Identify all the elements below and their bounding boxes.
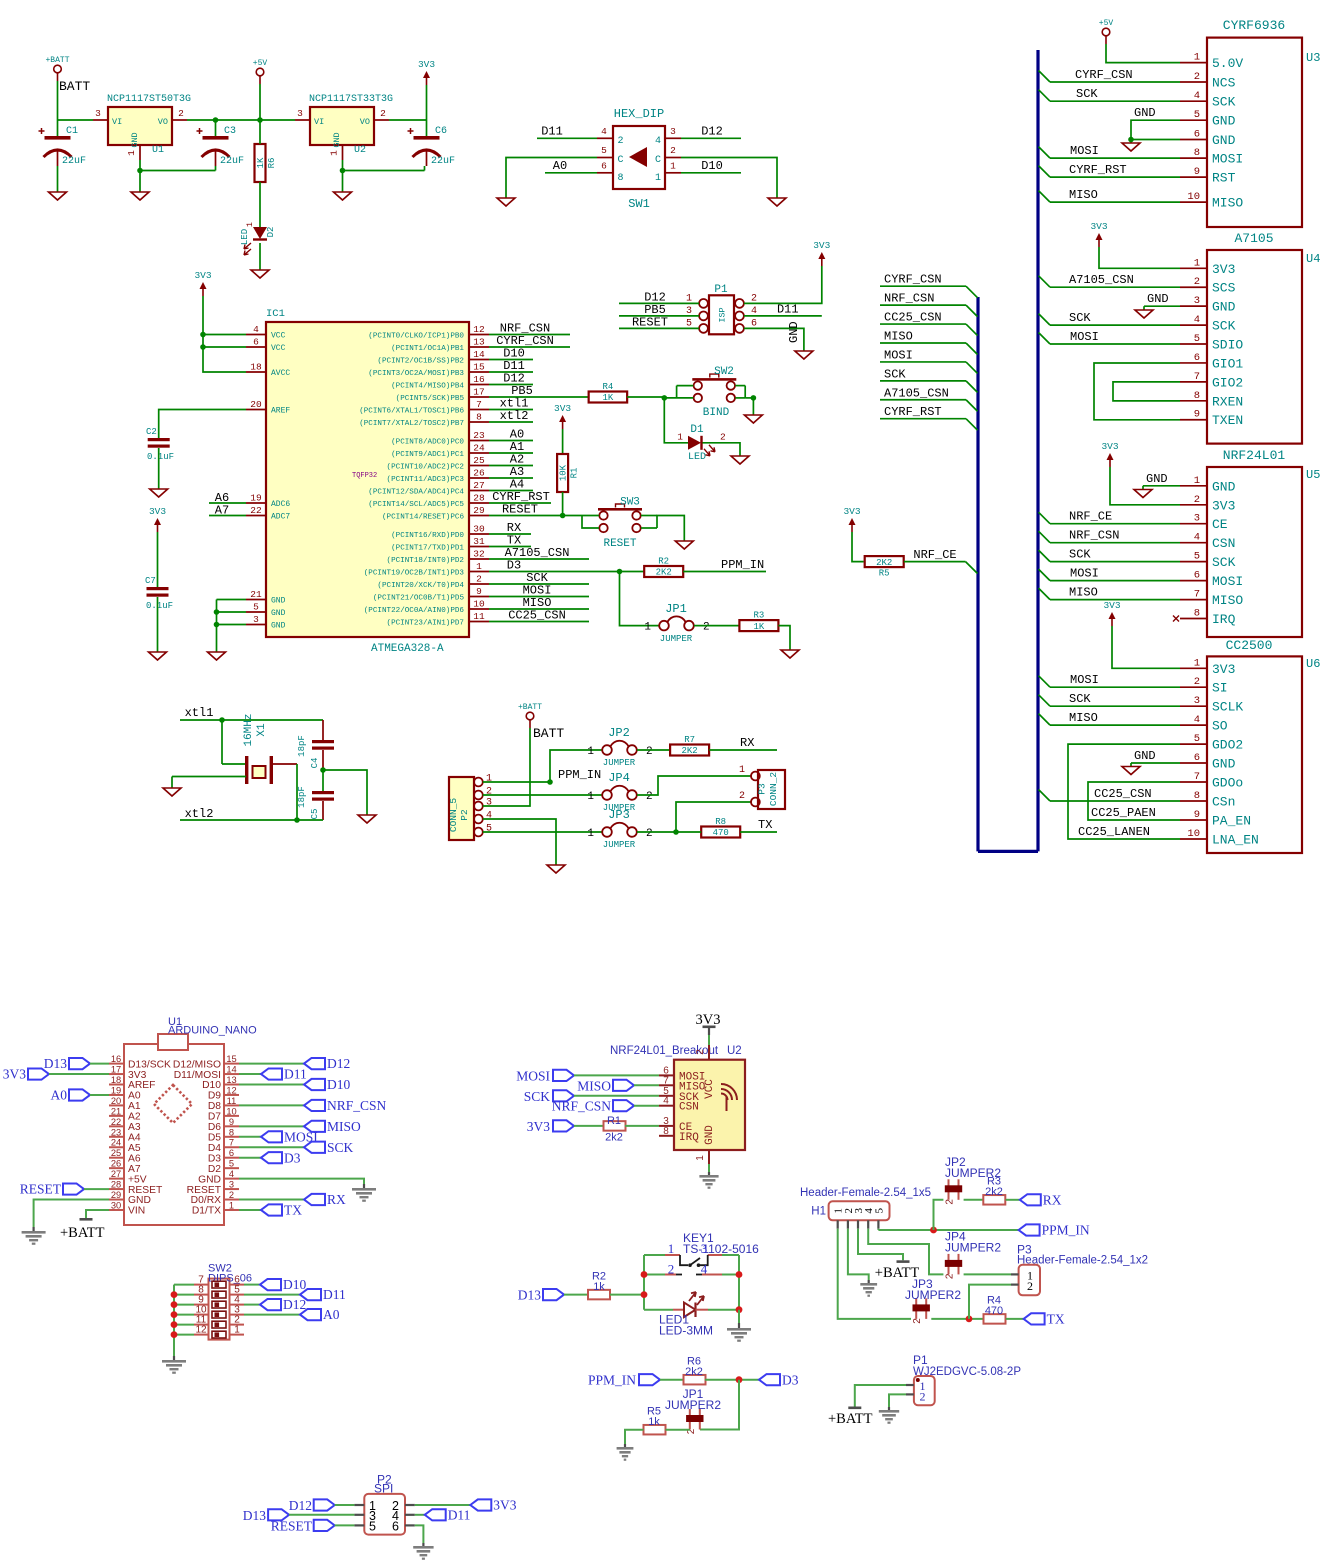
svg-text:2: 2 xyxy=(646,828,653,840)
wire C2 to ground xyxy=(158,448,160,489)
svg-text:(PCINT8/ADC0)PC0: (PCINT8/ADC0)PC0 xyxy=(391,438,464,446)
wire crystal right xyxy=(273,763,297,765)
svg-text:xtl2: xtl2 xyxy=(500,409,529,423)
wire C4 column xyxy=(322,720,324,740)
IC U4 A7105 xyxy=(1207,250,1302,444)
svg-text:3: 3 xyxy=(701,1241,708,1256)
junction H1 pin5 xyxy=(930,1227,937,1234)
ground under C2 xyxy=(150,489,168,497)
svg-text:D10: D10 xyxy=(283,1277,306,1292)
svg-text:A3: A3 xyxy=(128,1122,141,1133)
svg-text:8: 8 xyxy=(1194,390,1200,402)
wire AREF to C2 xyxy=(159,410,246,439)
svg-text:2: 2 xyxy=(945,1199,956,1205)
svg-text:CSn: CSn xyxy=(1212,795,1235,810)
svg-text:D7: D7 xyxy=(208,1112,221,1123)
svg-text:4: 4 xyxy=(1194,314,1200,326)
svg-text:D0/RX: D0/RX xyxy=(191,1195,221,1206)
svg-text:3V3: 3V3 xyxy=(1101,441,1118,452)
switch SW2 BIND xyxy=(694,381,702,389)
wire xtl1 xyxy=(180,719,323,721)
svg-text:U2: U2 xyxy=(354,145,366,156)
svg-text:GND: GND xyxy=(130,132,140,147)
wire +BATT to C1 xyxy=(57,81,59,136)
svg-text:RESET: RESET xyxy=(603,538,636,550)
svg-text:MISO: MISO xyxy=(327,1119,361,1134)
wire R1 to U2 CE xyxy=(625,1125,659,1127)
capacitor C2 0.1uF xyxy=(148,438,170,441)
wire A7 xyxy=(209,515,246,517)
switch KEY1 contacts xyxy=(665,1254,680,1256)
svg-text:8: 8 xyxy=(618,173,624,184)
wire P1 pin4 xyxy=(744,315,822,317)
svg-text:RXEN: RXEN xyxy=(1212,394,1243,409)
wire U6 GDOo to PA_EN xyxy=(1088,782,1180,820)
wire U1 GND to ground xyxy=(139,171,141,193)
wire R2 to PPM_IN xyxy=(683,571,766,573)
wire U6 GDO2 to LNA_EN xyxy=(1068,744,1180,839)
flag D10 at U1 xyxy=(304,1079,325,1090)
svg-text:25: 25 xyxy=(473,455,485,466)
flag 3V3 at P2 xyxy=(470,1499,491,1510)
svg-text:A0: A0 xyxy=(51,1088,68,1103)
svg-text:SW2: SW2 xyxy=(714,366,734,378)
svg-text:5: 5 xyxy=(1194,333,1200,345)
svg-text:SCK: SCK xyxy=(1069,311,1091,325)
wire D12 to P2 xyxy=(335,1504,355,1506)
svg-text:1: 1 xyxy=(329,150,340,156)
svg-text:ISP: ISP xyxy=(718,307,728,322)
svg-text:C3: C3 xyxy=(224,126,236,137)
wire KEY1 row2 xyxy=(644,1274,665,1276)
svg-text:VIN: VIN xyxy=(128,1206,145,1217)
svg-text:R1: R1 xyxy=(607,1115,621,1127)
wire U5 GND pin xyxy=(1143,485,1180,487)
svg-text:CC25_PAEN: CC25_PAEN xyxy=(1091,806,1156,820)
junctions SW2 xyxy=(171,1291,178,1298)
wire RESET to P1 xyxy=(619,327,699,329)
svg-text:D12: D12 xyxy=(701,125,723,139)
stem SW2 ground xyxy=(173,1356,175,1360)
svg-text:3V3: 3V3 xyxy=(1212,498,1235,513)
svg-text:3: 3 xyxy=(95,108,101,119)
wire 3V3 to R1 xyxy=(562,429,564,454)
svg-text:(PCINT23/AIN1)PD7: (PCINT23/AIN1)PD7 xyxy=(387,619,464,627)
wire H1 pin5 row xyxy=(877,1229,879,1230)
svg-text:JUMPER: JUMPER xyxy=(660,634,693,644)
svg-text:VCC: VCC xyxy=(271,344,286,353)
svg-text:P2: P2 xyxy=(459,809,470,821)
wire A0 to SW1 xyxy=(545,172,597,174)
svg-text:8: 8 xyxy=(663,1126,669,1137)
IC1 left pins xyxy=(246,334,266,336)
svg-text:+BATT: +BATT xyxy=(60,1225,105,1241)
svg-text:MOSI: MOSI xyxy=(1212,574,1243,589)
svg-text:(PCINT14/RESET)PC6: (PCINT14/RESET)PC6 xyxy=(382,513,464,521)
wire VCC pin4 xyxy=(203,334,246,336)
svg-text:5: 5 xyxy=(1194,109,1200,121)
wire SW2 to ground xyxy=(752,398,754,415)
wire P2 to D11 xyxy=(415,1514,425,1516)
svg-text:27: 27 xyxy=(473,480,484,491)
svg-text:9: 9 xyxy=(229,1117,234,1127)
svg-text:GND: GND xyxy=(271,597,286,606)
junction R4 node xyxy=(662,395,668,401)
svg-text:(PCINT16/RXD)PD0: (PCINT16/RXD)PD0 xyxy=(391,532,464,540)
svg-text:3V3: 3V3 xyxy=(843,506,860,517)
svg-text:D1/TX: D1/TX xyxy=(192,1206,221,1217)
svg-text:21: 21 xyxy=(250,589,262,600)
svg-text:2: 2 xyxy=(739,791,745,802)
svg-text:1: 1 xyxy=(587,791,594,803)
svg-text:VCC: VCC xyxy=(271,332,286,341)
svg-text:+5V: +5V xyxy=(128,1174,147,1185)
svg-text:1: 1 xyxy=(695,1155,706,1161)
wire R6 to D3 xyxy=(705,1379,759,1381)
wire U1 RX xyxy=(239,1199,304,1201)
ground left of crystal xyxy=(163,788,181,796)
flag D3 at U1 xyxy=(261,1152,282,1163)
junction GND3 xyxy=(214,622,220,628)
jumper JP3 xyxy=(602,827,612,837)
svg-text:A7: A7 xyxy=(128,1164,141,1175)
wire PPM_IN to R6 xyxy=(660,1379,684,1381)
wire D2 to ground xyxy=(259,243,261,270)
svg-text:2k2: 2k2 xyxy=(605,1132,623,1144)
svg-text:SW1: SW1 xyxy=(628,197,650,211)
svg-text:22: 22 xyxy=(250,505,262,516)
svg-text:PB5: PB5 xyxy=(511,384,533,398)
svg-text:6: 6 xyxy=(1194,352,1200,364)
svg-text:GND: GND xyxy=(198,1174,221,1185)
junction KEY1 right row2 xyxy=(736,1271,743,1278)
wire D13 to P2 xyxy=(289,1514,354,1516)
wire H1 pin2 to ground xyxy=(848,1229,869,1280)
ground at U3 xyxy=(1122,143,1140,151)
supply +BATT at H1 xyxy=(897,1260,910,1263)
supply +BATT at U1 xyxy=(80,1218,93,1221)
wire junction to R8 xyxy=(676,831,701,833)
wire D3 node to JP1 xyxy=(700,1380,739,1430)
svg-text:CC25_CSN: CC25_CSN xyxy=(508,609,566,623)
svg-text:WJ2EDGVC-5.08-2P: WJ2EDGVC-5.08-2P xyxy=(913,1366,1021,1378)
flag SCK at U1 xyxy=(304,1142,325,1153)
svg-text:CC25_CSN: CC25_CSN xyxy=(1094,787,1152,801)
svg-text:D11: D11 xyxy=(541,125,563,139)
svg-text:ARDUINO_NANO: ARDUINO_NANO xyxy=(168,1025,257,1037)
wire pin1 up to JP2 xyxy=(550,750,602,782)
svg-text:2: 2 xyxy=(1194,71,1200,83)
svg-text:GND: GND xyxy=(1212,479,1236,494)
wire U2 GND to C6 xyxy=(343,170,425,172)
wire PB5 to R4 xyxy=(489,396,589,398)
svg-text:LED: LED xyxy=(688,452,706,463)
wire U4 GIO1 to TXEN xyxy=(1094,363,1180,420)
wire H1 pin1 to JP3 xyxy=(838,1229,911,1319)
flag NRF_CSN at U1 xyxy=(304,1100,325,1111)
junction +5V node xyxy=(257,117,263,123)
wire xtl2 xyxy=(180,819,323,821)
jumper JP4 bottom xyxy=(948,1254,950,1275)
svg-text:NRF_CSN: NRF_CSN xyxy=(1069,529,1119,543)
svg-text:MOSI: MOSI xyxy=(1070,567,1099,581)
wire U1 VO to +5V node xyxy=(187,119,295,121)
svg-text:12: 12 xyxy=(226,1085,236,1095)
svg-text:4: 4 xyxy=(655,136,661,147)
wire C6 bottom xyxy=(424,166,426,171)
svg-text:470: 470 xyxy=(713,828,729,838)
wire +5V node to R6 xyxy=(259,120,261,144)
svg-text:(PCINT6/XTAL1/TOSC1)PB6: (PCINT6/XTAL1/TOSC1)PB6 xyxy=(359,407,464,415)
svg-text:5: 5 xyxy=(369,1519,376,1533)
svg-text:RESET: RESET xyxy=(128,1185,163,1196)
wire R8 to TX xyxy=(740,831,777,833)
IC U1 ARDUINO_NANO xyxy=(124,1044,224,1225)
svg-text:2: 2 xyxy=(1194,494,1200,506)
wire SW1 C left xyxy=(506,158,597,199)
wire JP4 to P3 pin1 xyxy=(637,776,751,795)
wire JP2 to R3 xyxy=(964,1199,983,1201)
svg-text:2k2: 2k2 xyxy=(685,1366,703,1378)
svg-text:SCK: SCK xyxy=(1212,555,1236,570)
resistor R1 10K xyxy=(557,454,568,492)
wire D12 to P1 xyxy=(619,302,699,304)
svg-text:22uF: 22uF xyxy=(431,156,455,167)
svg-text:MISO: MISO xyxy=(577,1078,611,1093)
svg-text:xtl1: xtl1 xyxy=(185,706,214,720)
svg-text:MISO: MISO xyxy=(1069,586,1098,600)
svg-text:18: 18 xyxy=(111,1075,121,1085)
wire JP1 to R3 xyxy=(694,625,739,627)
svg-text:11: 11 xyxy=(473,611,485,622)
jumper JP1 xyxy=(659,621,669,631)
capacitor C5 18pF xyxy=(312,791,334,794)
svg-text:Header-Female-2.54_1x5: Header-Female-2.54_1x5 xyxy=(800,1187,931,1199)
svg-text:0.1uF: 0.1uF xyxy=(146,601,173,611)
svg-text:CONN_2: CONN_2 xyxy=(768,772,779,807)
junction xtl1 xyxy=(219,717,225,723)
svg-text:TX: TX xyxy=(758,818,772,832)
svg-text:17: 17 xyxy=(111,1065,121,1075)
resistor R4 1K xyxy=(589,392,628,403)
resistor R2 1k bottom xyxy=(588,1290,610,1300)
wire junction to D1 xyxy=(664,398,688,443)
svg-text:NRF24L01: NRF24L01 xyxy=(1223,448,1286,463)
svg-text:1k: 1k xyxy=(648,1416,660,1428)
bus vertical left xyxy=(976,297,979,851)
wire SW2 D11 xyxy=(244,1294,300,1296)
svg-text:6: 6 xyxy=(1194,752,1200,764)
svg-text:7: 7 xyxy=(1194,371,1200,383)
led LED1 xyxy=(644,1309,673,1311)
ground under C1 xyxy=(49,192,67,200)
junction GND5 xyxy=(214,609,220,615)
flag D11 at SW2 xyxy=(300,1289,321,1300)
svg-text:PPM_IN: PPM_IN xyxy=(588,1372,636,1387)
svg-text:TS-1102-5016: TS-1102-5016 xyxy=(683,1242,759,1256)
svg-text:SCLK: SCLK xyxy=(1212,700,1243,715)
wire D11 to SW1 xyxy=(537,137,597,139)
wire P2 pin5 to JP3 xyxy=(483,831,603,833)
wire JP2 to R7 xyxy=(637,749,670,751)
svg-text:D13: D13 xyxy=(243,1508,266,1523)
svg-text:A7105_CSN: A7105_CSN xyxy=(1069,273,1134,287)
wire U1 GND down xyxy=(139,160,141,171)
svg-text:A7105_CSN: A7105_CSN xyxy=(884,386,949,400)
ground SW2 xyxy=(162,1360,186,1363)
svg-text:20: 20 xyxy=(111,1096,121,1106)
svg-text:26: 26 xyxy=(111,1159,121,1169)
svg-text:29: 29 xyxy=(111,1190,121,1200)
svg-text:D11: D11 xyxy=(448,1507,471,1522)
wire C1 node to U1 VI xyxy=(58,119,94,121)
ground at U4 xyxy=(1135,310,1153,318)
svg-text:VO: VO xyxy=(360,117,370,127)
junction R6 node xyxy=(736,1376,743,1383)
wire U1 VIN to +BATT xyxy=(86,1210,109,1218)
svg-text:A4: A4 xyxy=(128,1132,141,1143)
svg-text:(PCINT0/CLKO/ICP1)PB0: (PCINT0/CLKO/ICP1)PB0 xyxy=(368,332,464,340)
svg-text:CYRF_RST: CYRF_RST xyxy=(884,405,942,419)
svg-text:D11: D11 xyxy=(284,1067,307,1082)
svg-text:3V3: 3V3 xyxy=(1212,662,1235,677)
svg-text:8: 8 xyxy=(1194,608,1200,620)
svg-text:D3: D3 xyxy=(507,559,521,573)
svg-text:NRF_CE: NRF_CE xyxy=(913,548,956,562)
svg-text:7: 7 xyxy=(229,1138,234,1148)
svg-text:2: 2 xyxy=(476,574,482,585)
svg-text:JP2: JP2 xyxy=(608,726,630,740)
svg-text:ADC6: ADC6 xyxy=(271,500,290,509)
svg-text:1: 1 xyxy=(245,222,255,227)
svg-text:4: 4 xyxy=(701,1262,708,1277)
svg-text:18pF: 18pF xyxy=(297,786,307,808)
wire crystal left lower xyxy=(172,776,246,778)
svg-text:5: 5 xyxy=(1194,551,1200,563)
ground P2 xyxy=(413,1546,433,1549)
svg-text:(PCINT3/OC2A/MOSI)PB3: (PCINT3/OC2A/MOSI)PB3 xyxy=(368,370,464,378)
svg-text:24: 24 xyxy=(111,1138,121,1148)
capacitor C4 18pF xyxy=(312,740,334,743)
junction U2 GND xyxy=(340,168,346,174)
svg-text:NRF_CSN: NRF_CSN xyxy=(552,1099,612,1114)
wire P2 pin2 to JP4 xyxy=(483,794,603,796)
svg-text:SCK: SCK xyxy=(1212,95,1236,110)
svg-text:D8: D8 xyxy=(208,1101,221,1112)
svg-text:2: 2 xyxy=(720,432,726,443)
svg-text:2: 2 xyxy=(380,108,386,119)
svg-text:VO: VO xyxy=(158,117,168,127)
resistor R3 1K xyxy=(739,620,778,631)
junction TX node xyxy=(673,829,679,835)
svg-text:RESET: RESET xyxy=(502,503,538,517)
svg-text:A0: A0 xyxy=(128,1091,141,1102)
IC U2 NRF24L01_Breakout xyxy=(674,1060,745,1150)
svg-text:U6: U6 xyxy=(1306,657,1320,671)
wire 3V3 down to C6 xyxy=(426,85,428,136)
resistor R1 2k2 bottom xyxy=(604,1121,626,1131)
svg-text:CSN: CSN xyxy=(1212,536,1235,551)
svg-text:U3: U3 xyxy=(1306,51,1320,65)
wire +5V to U3 pin1 xyxy=(1106,44,1180,63)
wire 3V3 to VCC/AVCC xyxy=(203,296,246,372)
svg-text:GDOo: GDOo xyxy=(1212,776,1243,791)
ground right of crystal xyxy=(358,815,376,823)
svg-text:30: 30 xyxy=(111,1200,121,1210)
svg-text:1: 1 xyxy=(670,161,676,172)
resistor R7 2K2 xyxy=(670,745,709,756)
svg-text:CONN_5: CONN_5 xyxy=(448,798,459,833)
svg-text:xtl2: xtl2 xyxy=(185,807,214,821)
wire U1 MOSI xyxy=(239,1136,261,1138)
svg-text:BATT: BATT xyxy=(59,79,90,94)
jumper JP2 xyxy=(602,745,612,755)
svg-text:8: 8 xyxy=(476,412,482,423)
svg-text:GND: GND xyxy=(704,1125,716,1145)
wire R3 to RX xyxy=(1006,1199,1020,1201)
svg-text:SCK: SCK xyxy=(327,1140,354,1155)
svg-text:NRF_CE: NRF_CE xyxy=(1069,510,1112,524)
wire MOSI to U2 xyxy=(574,1074,659,1076)
svg-text:CYRF6936: CYRF6936 xyxy=(1223,18,1285,33)
resistor R3 2k2 bottom xyxy=(983,1195,1005,1205)
svg-text:RESET: RESET xyxy=(187,1185,222,1196)
wire bus to U6 CSn xyxy=(1039,790,1051,802)
svg-text:12: 12 xyxy=(473,324,485,335)
wire P2 to 3V3 xyxy=(415,1504,471,1506)
svg-text:D11/MOSI: D11/MOSI xyxy=(174,1070,221,1081)
svg-text:+5V: +5V xyxy=(1099,19,1114,28)
svg-text:6: 6 xyxy=(1194,129,1200,141)
wire D13 to U1 xyxy=(90,1063,109,1065)
junction C3 top xyxy=(213,117,219,123)
wire A6 xyxy=(209,502,246,504)
wire U4 GND pin xyxy=(1144,305,1180,307)
svg-text:8: 8 xyxy=(229,1127,234,1137)
wire U3 GND pins xyxy=(1131,120,1180,139)
svg-text:1K: 1K xyxy=(256,157,266,168)
svg-text:+BATT: +BATT xyxy=(518,703,542,712)
stem U2 ground xyxy=(708,1172,710,1175)
svg-text:18pF: 18pF xyxy=(297,735,307,757)
svg-text:4: 4 xyxy=(1194,714,1200,726)
svg-text:SCK: SCK xyxy=(884,367,906,381)
ground under R3 xyxy=(781,650,799,658)
flag TX at R4 xyxy=(1024,1313,1045,1324)
flag D13 at U1 xyxy=(69,1058,90,1069)
svg-text:C4: C4 xyxy=(310,758,320,769)
svg-text:C1: C1 xyxy=(66,126,78,137)
stem P1 ground xyxy=(888,1407,890,1410)
wire P2 pin1 xyxy=(483,781,550,783)
svg-text:AREF: AREF xyxy=(271,407,290,416)
svg-text:GND: GND xyxy=(1212,114,1236,129)
wire P2 pin4 to ground xyxy=(483,819,556,865)
svg-text:SCK: SCK xyxy=(1076,87,1098,101)
stem P2 ground xyxy=(422,1543,424,1546)
svg-text:U5: U5 xyxy=(1306,468,1320,482)
svg-text:20: 20 xyxy=(250,399,262,410)
wire U1 TX xyxy=(239,1209,261,1211)
svg-text:D6: D6 xyxy=(208,1122,221,1133)
junction U1 GND xyxy=(137,168,143,174)
svg-text:28: 28 xyxy=(473,493,485,504)
wire RESET to P2 xyxy=(335,1524,355,1526)
svg-text:12: 12 xyxy=(195,1325,207,1336)
svg-text:RX: RX xyxy=(740,736,754,750)
svg-text:MOSI: MOSI xyxy=(516,1068,550,1083)
svg-text:9: 9 xyxy=(1194,809,1200,821)
